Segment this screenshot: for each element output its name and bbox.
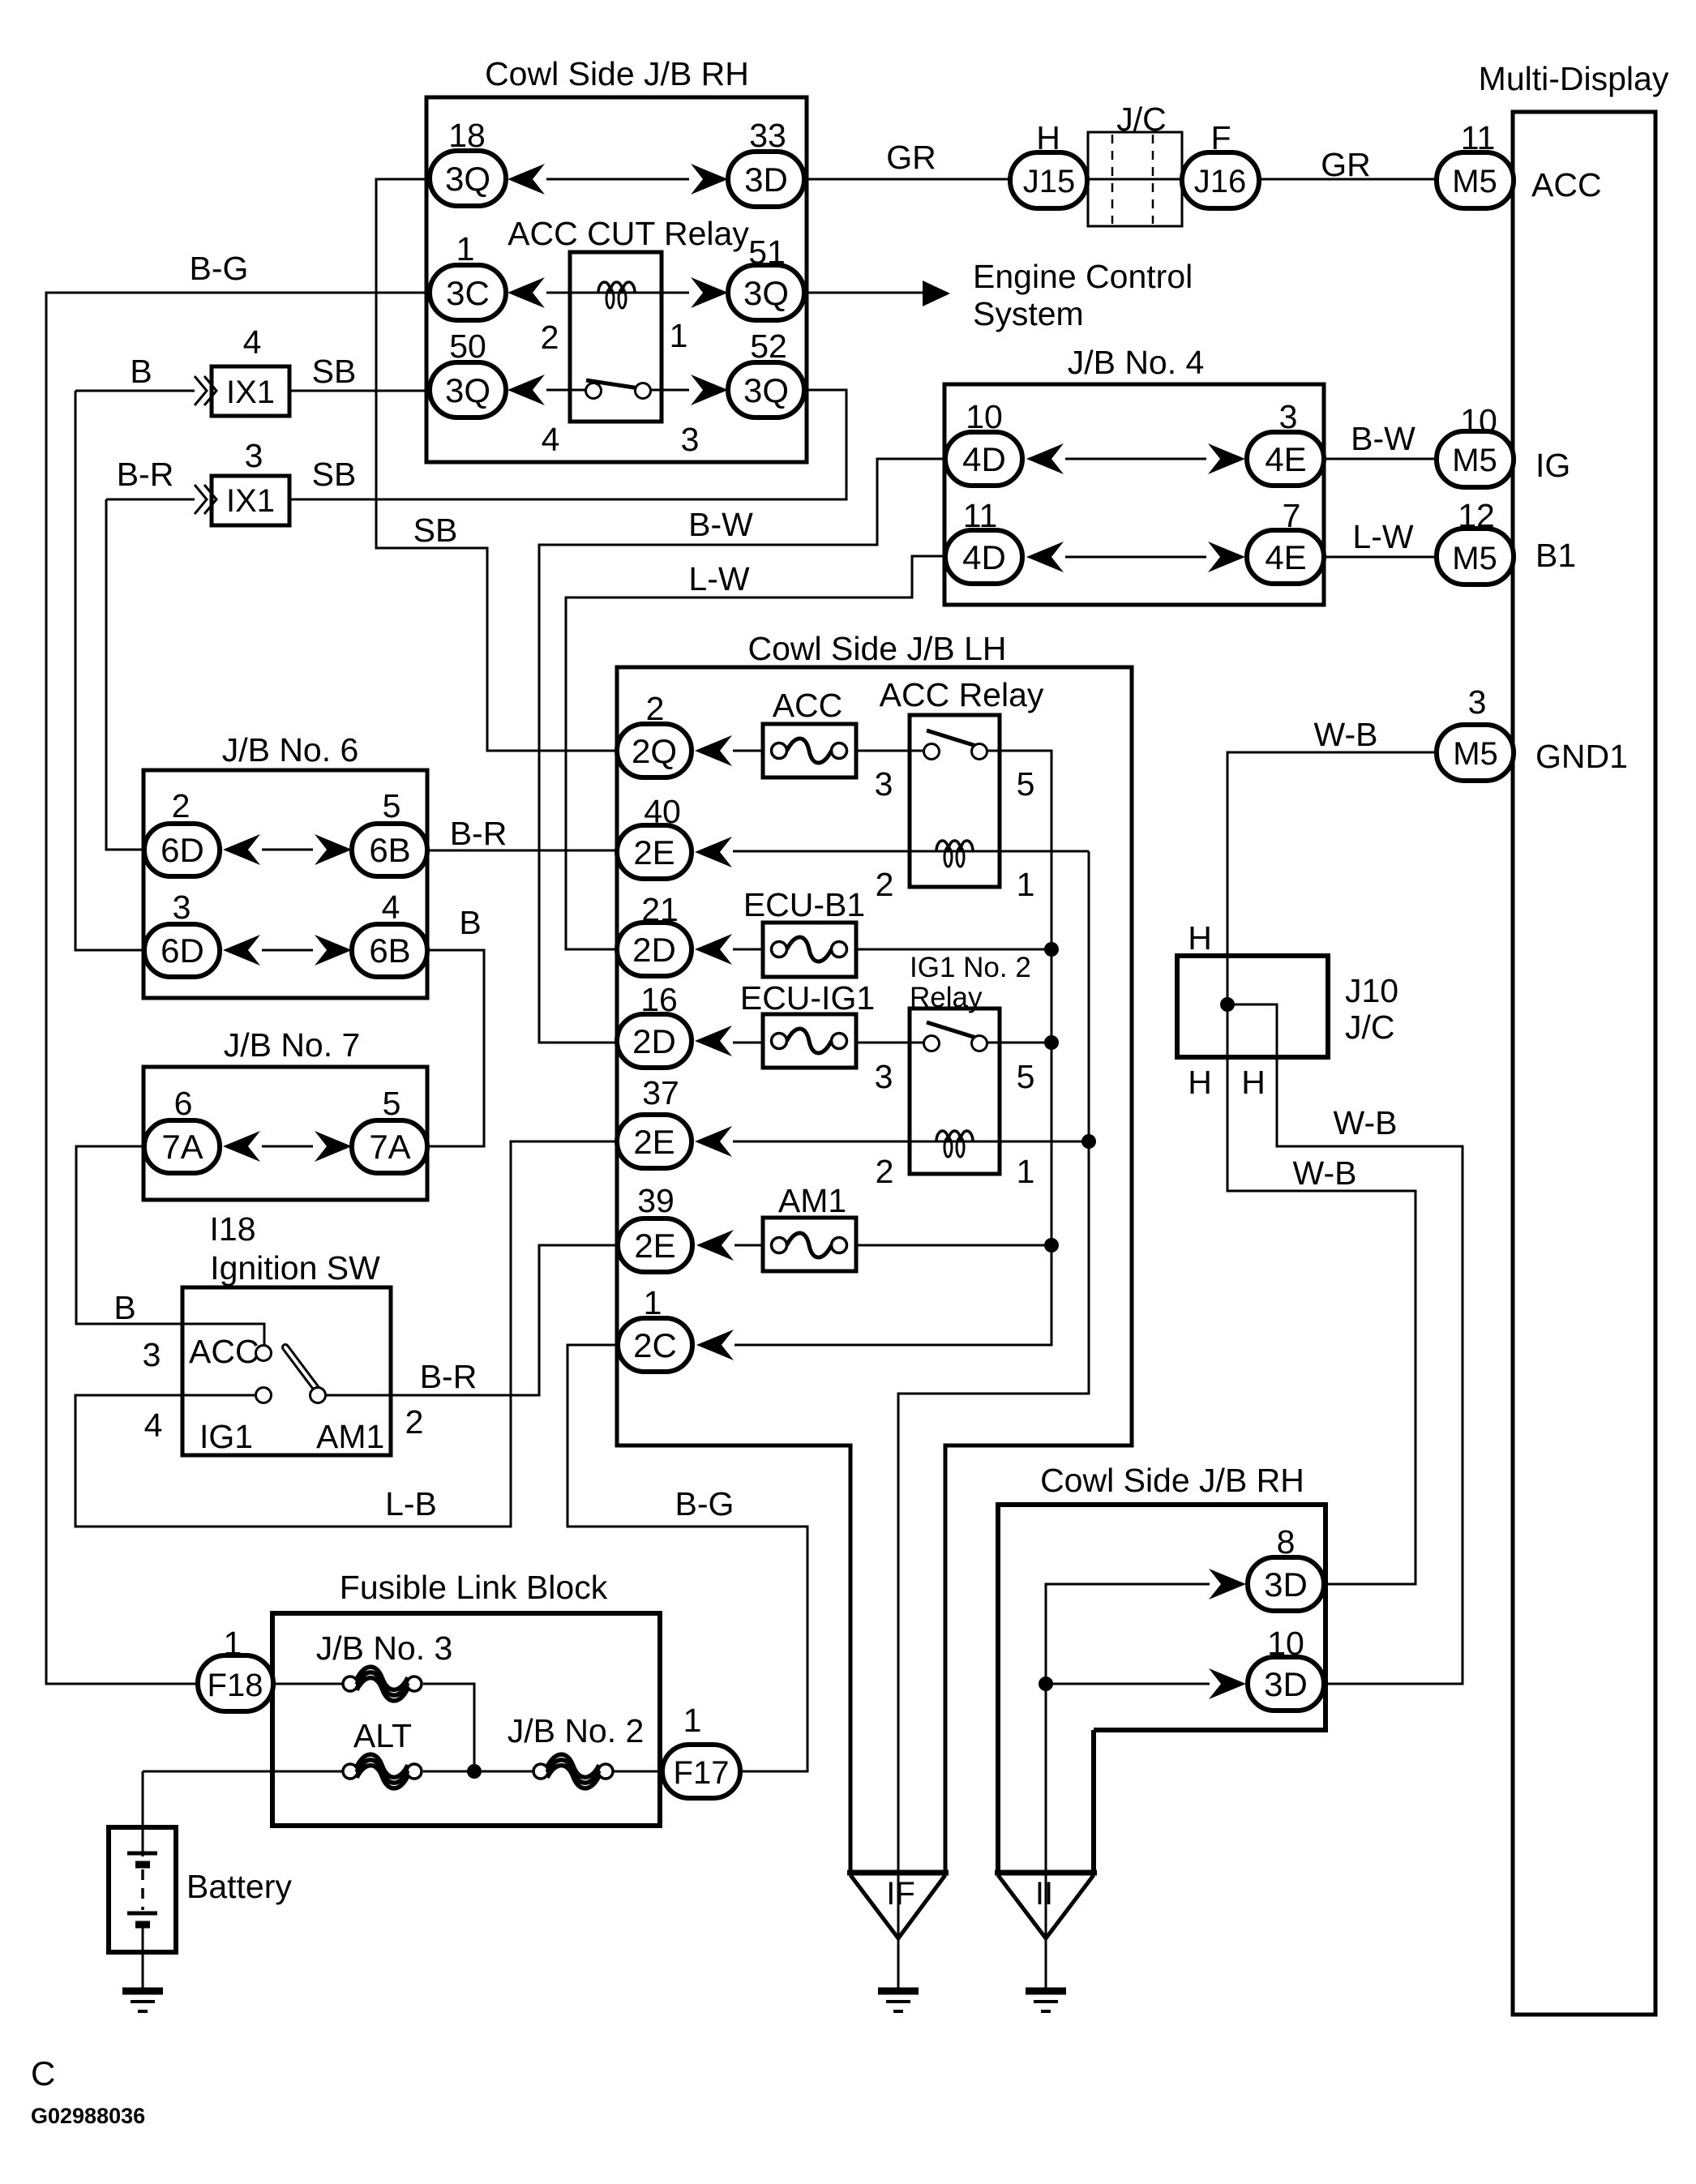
wire B-R net to 6D2 <box>106 499 146 850</box>
svg-text:6D: 6D <box>161 931 204 970</box>
svg-text:8: 8 <box>1277 1523 1296 1561</box>
connector 2Q pin 2 <box>617 724 692 777</box>
wire II funnel to ground <box>1045 1873 1047 1991</box>
svg-text:7A: 7A <box>369 1128 410 1166</box>
junction coil pins <box>1081 1134 1096 1149</box>
svg-text:IX1: IX1 <box>226 483 275 519</box>
svg-text:J/C: J/C <box>1345 1008 1395 1046</box>
svg-text:SB: SB <box>312 353 357 390</box>
svg-text:Ignition SW: Ignition SW <box>210 1249 380 1287</box>
wire W-B J10 to 3D10 <box>1227 1004 1463 1684</box>
svg-text:F17: F17 <box>674 1755 730 1791</box>
switch Ignition SW <box>182 1287 391 1455</box>
svg-text:39: 39 <box>637 1182 675 1219</box>
svg-text:2Q: 2Q <box>632 732 677 770</box>
svg-text:B: B <box>459 904 481 941</box>
wire B into IX1-4 <box>75 390 195 392</box>
svg-text:J/B No. 4: J/B No. 4 <box>1068 344 1205 381</box>
svg-text:52: 52 <box>750 328 787 365</box>
fuse AM1 <box>763 1218 856 1271</box>
wire 4D10-4E3 <box>1065 458 1206 460</box>
relay IG1 No. 2 Relay box <box>910 1008 1000 1174</box>
wire 6D3-6B4 <box>262 949 313 952</box>
svg-text:3: 3 <box>1279 398 1298 435</box>
connector J15 <box>1010 152 1087 208</box>
connector F18 pin 1 <box>198 1655 273 1711</box>
wire battery to ground <box>142 1923 144 1991</box>
svg-text:F: F <box>1210 119 1231 156</box>
wire B-R AM1 pin to 2E39 <box>325 1245 619 1395</box>
svg-text:50: 50 <box>449 328 486 365</box>
wire B-W 4E3 to M5 IG <box>1322 458 1438 460</box>
svg-text:16: 16 <box>640 981 678 1018</box>
arrow into 4E-3 <box>1208 443 1245 474</box>
wire 3D10 left <box>1046 1683 1210 1685</box>
arrow into 4D-11 <box>1026 542 1064 572</box>
wire through J/C <box>1086 178 1184 181</box>
junction block J/B No. 4 <box>944 384 1324 605</box>
svg-text:2: 2 <box>646 690 665 727</box>
connector M5 pin 12 B1 <box>1437 529 1514 585</box>
connector 3C pin 1 <box>430 265 506 320</box>
arrow into 2D-16 <box>695 1026 732 1056</box>
connector 3Q pin 18 <box>430 151 506 206</box>
junction AM1/bus <box>1044 1238 1059 1253</box>
svg-text:Fusible Link Block: Fusible Link Block <box>340 1569 608 1606</box>
svg-text:GR: GR <box>1321 146 1371 183</box>
svg-text:Engine Control: Engine Control <box>973 258 1193 295</box>
svg-text:4D: 4D <box>962 538 1006 576</box>
connector IX1 pin 4 <box>212 366 289 416</box>
wire battery to ALT link <box>143 1771 346 1773</box>
chevrons into IX1-3 <box>195 485 207 514</box>
shield funnel II <box>995 1870 1097 1876</box>
svg-text:C: C <box>31 2054 55 2092</box>
arrow into 2D-21 <box>695 934 732 965</box>
junction 3D wires <box>1039 1677 1053 1691</box>
svg-text:I18: I18 <box>210 1210 256 1248</box>
wire B-G 2C to F17 <box>567 1345 807 1771</box>
svg-text:6D: 6D <box>161 831 204 869</box>
svg-text:3Q: 3Q <box>743 274 789 312</box>
svg-text:5: 5 <box>1017 765 1035 803</box>
svg-text:10: 10 <box>966 398 1003 435</box>
wire battery feed <box>142 1771 144 1856</box>
svg-text:ALT: ALT <box>353 1717 412 1754</box>
wire IG1 relay pin5 <box>987 1042 1051 1044</box>
wire IF channel from relay coils <box>898 851 1089 1991</box>
wire to Engine Control System <box>803 292 924 294</box>
connector 3Q pin 50 <box>430 362 506 418</box>
svg-text:Cowl Side J/B RH: Cowl Side J/B RH <box>485 55 749 92</box>
arrow into 3Q-18 <box>508 164 545 195</box>
svg-text:B-G: B-G <box>675 1485 735 1522</box>
svg-text:J/B No. 3: J/B No. 3 <box>316 1629 453 1667</box>
svg-text:AM1: AM1 <box>778 1182 846 1219</box>
svg-text:B-G: B-G <box>190 250 249 287</box>
svg-text:ACC CUT Relay: ACC CUT Relay <box>508 215 749 252</box>
battery <box>109 1827 176 1952</box>
wire row 18-33 <box>546 178 689 181</box>
wire W-B M5 GND1 via J10 to 3D8 <box>1227 752 1438 1584</box>
svg-text:J/B No. 7: J/B No. 7 <box>224 1026 361 1064</box>
arrow into 3D-33 <box>691 164 728 195</box>
junction ALT/JB3 <box>467 1764 482 1779</box>
wire B net to 6D3 <box>75 391 146 950</box>
arrow into 2Q-2 <box>695 735 732 766</box>
svg-text:B-R: B-R <box>450 815 508 852</box>
wire SB IX1-4 to 3Q50 <box>289 390 430 392</box>
wire F18 to J/B No.3 link <box>199 1683 346 1685</box>
svg-text:37: 37 <box>642 1074 679 1111</box>
svg-text:4: 4 <box>144 1407 163 1444</box>
arrow into 3D-10 <box>1209 1668 1246 1699</box>
junction block Cowl Side J/B LH <box>617 667 1132 1873</box>
svg-text:11: 11 <box>963 497 998 534</box>
wire 6D2-6B5 <box>262 849 313 851</box>
svg-text:SB: SB <box>413 512 458 549</box>
wire GR 3D33 to J15 <box>803 178 1013 181</box>
wire 7A6-7A5 <box>262 1146 313 1148</box>
svg-text:6B: 6B <box>369 831 410 869</box>
svg-text:J16: J16 <box>1194 164 1247 199</box>
svg-text:2: 2 <box>541 319 559 356</box>
svg-text:3Q: 3Q <box>445 371 490 409</box>
coil ACC Relay <box>910 850 1000 853</box>
svg-text:2D: 2D <box>632 931 676 969</box>
wire B-R into IX1-3 <box>106 499 195 501</box>
switch contact ACC CUT Relay <box>586 380 645 389</box>
svg-text:1: 1 <box>1017 866 1035 903</box>
arrow into 6D-3 <box>223 935 260 966</box>
wire B 6B4 to 7A5 <box>427 950 484 1146</box>
svg-text:B-R: B-R <box>420 1358 478 1395</box>
svg-text:18: 18 <box>448 117 486 154</box>
svg-text:3: 3 <box>875 765 893 803</box>
connector J16 <box>1182 152 1259 208</box>
shield funnel IF <box>847 1870 949 1876</box>
svg-text:3D: 3D <box>1264 1565 1308 1604</box>
wire ACC relay pin5 bus to 2C <box>735 751 1051 1345</box>
svg-text:4D: 4D <box>962 440 1006 478</box>
coil IG1 No.2 Relay <box>910 1141 1000 1143</box>
fuse ECU-IG1 <box>763 1014 856 1068</box>
svg-text:51: 51 <box>748 233 786 271</box>
connector 2E pin 40 <box>617 825 692 879</box>
svg-text:Cowl Side J/B LH: Cowl Side J/B LH <box>747 630 1006 667</box>
svg-text:3: 3 <box>245 437 263 474</box>
svg-text:3: 3 <box>681 421 700 458</box>
svg-text:2: 2 <box>172 787 191 824</box>
arrow into 2E-40 <box>695 837 732 867</box>
arrow into 3Q-51 <box>691 277 728 308</box>
svg-text:J15: J15 <box>1023 164 1076 199</box>
wire IG1 relay coil pin1 <box>1000 1141 1089 1143</box>
connector 3Q pin 52 <box>728 362 804 418</box>
svg-text:7: 7 <box>1283 497 1301 534</box>
junction inside J10 <box>1220 997 1235 1012</box>
wire 3D8 left to II funnel <box>1046 1584 1210 1873</box>
svg-text:2C: 2C <box>633 1326 677 1364</box>
svg-text:11: 11 <box>1461 119 1496 156</box>
fusible link J/B No. 2 <box>533 1754 613 1788</box>
svg-text:3: 3 <box>173 889 191 926</box>
svg-text:J/B No. 6: J/B No. 6 <box>222 731 359 769</box>
svg-text:GND1: GND1 <box>1535 738 1628 775</box>
svg-text:7A: 7A <box>161 1128 203 1166</box>
wire B 7A6 to ignition ACC <box>76 1146 264 1347</box>
svg-text:6: 6 <box>174 1085 193 1122</box>
arrow into 3Q-52 <box>691 375 728 405</box>
relay ACC CUT Relay box <box>570 252 662 422</box>
svg-text:B-R: B-R <box>117 456 174 493</box>
svg-text:M5: M5 <box>1453 736 1498 772</box>
connector 3D pin 33 <box>728 152 804 207</box>
svg-text:L-B: L-B <box>385 1485 437 1522</box>
svg-text:3C: 3C <box>446 274 490 312</box>
connector 3Q pin 51 <box>728 265 804 320</box>
connector 3D pin 10 <box>1248 1657 1324 1711</box>
wire SB IX1-3 to 3Q52 <box>289 390 846 499</box>
svg-text:4: 4 <box>542 421 560 458</box>
svg-text:B-W: B-W <box>688 506 753 543</box>
svg-text:2E: 2E <box>633 1123 675 1161</box>
svg-text:Cowl Side J/B RH: Cowl Side J/B RH <box>1040 1462 1304 1499</box>
wire coil row 3C-3Q51 <box>546 292 689 294</box>
arrow into 4D-10 <box>1026 443 1064 474</box>
svg-text:AM1: AM1 <box>316 1418 384 1455</box>
svg-text:2E: 2E <box>634 1227 675 1265</box>
svg-text:L-W: L-W <box>688 560 749 597</box>
svg-text:J/B No. 2: J/B No. 2 <box>508 1712 645 1749</box>
svg-text:1: 1 <box>683 1702 702 1739</box>
svg-text:2E: 2E <box>633 833 675 871</box>
arrow into 4E-7 <box>1208 542 1245 572</box>
connector 6B pin 4 <box>352 924 427 977</box>
connector 2E pin 39 <box>618 1218 692 1272</box>
svg-text:B1: B1 <box>1535 537 1576 574</box>
junction connector J10 J/C <box>1177 956 1328 1057</box>
switch contact ACC Relay <box>927 730 979 747</box>
ground IF <box>878 1991 919 2011</box>
junction block J/B No. 7 <box>143 1067 427 1200</box>
svg-text:W-B: W-B <box>1293 1154 1357 1192</box>
svg-text:4: 4 <box>382 889 400 926</box>
switch contact IG1 No.2 Relay <box>927 1022 979 1038</box>
arrow into 2E-37 <box>695 1126 732 1157</box>
connector 7A pin 5 <box>352 1120 427 1173</box>
connector 3D pin 8 <box>1248 1557 1324 1611</box>
svg-text:B: B <box>113 1289 135 1326</box>
svg-text:3: 3 <box>875 1058 893 1095</box>
svg-text:GR: GR <box>886 139 936 176</box>
svg-text:2D: 2D <box>632 1022 676 1060</box>
wire L-B IG1 pin to 2E37 <box>75 1141 619 1527</box>
svg-text:1: 1 <box>456 230 475 268</box>
arrow into 6B-4 <box>315 935 352 966</box>
svg-text:1: 1 <box>644 1284 662 1321</box>
svg-text:10: 10 <box>1267 1625 1304 1662</box>
svg-text:IF: IF <box>886 1876 915 1912</box>
wire L-W net 2D21 to 4D11 <box>566 556 948 949</box>
svg-text:ECU-IG1: ECU-IG1 <box>740 979 875 1017</box>
wire B-G net 3C to F18 <box>46 293 430 1684</box>
svg-text:IG: IG <box>1535 447 1570 484</box>
wire GR J16 to M5 ACC <box>1257 178 1438 181</box>
arrow Engine Control System <box>923 280 950 306</box>
wire switch row 50-52 <box>546 389 586 392</box>
arrow into 3D-8 <box>1209 1569 1246 1599</box>
svg-text:M5: M5 <box>1452 164 1497 199</box>
junction block Cowl Side J/B RH (bottom) <box>998 1505 1326 1873</box>
svg-text:G02988036: G02988036 <box>31 2104 145 2128</box>
svg-text:B: B <box>130 353 152 390</box>
fuse ECU-B1 <box>763 923 856 977</box>
svg-text:4E: 4E <box>1265 440 1306 478</box>
arrow into 7A-5 <box>315 1131 352 1162</box>
component Multi-Display box <box>1513 112 1655 2015</box>
svg-text:10: 10 <box>1460 402 1497 439</box>
wire B-R 6B5 to 2E40 <box>427 850 619 852</box>
connector M5 pin 11 ACC <box>1437 152 1514 208</box>
junction ECU-B1/bus <box>1044 942 1059 957</box>
svg-text:ACC: ACC <box>189 1333 259 1370</box>
svg-text:SB: SB <box>312 456 357 493</box>
svg-text:IG1: IG1 <box>199 1418 253 1455</box>
svg-text:5: 5 <box>383 1085 401 1122</box>
fusible link ALT <box>343 1754 422 1788</box>
svg-text:2: 2 <box>405 1403 424 1441</box>
svg-text:F18: F18 <box>208 1668 263 1703</box>
connector 7A pin 6 <box>144 1120 220 1173</box>
svg-text:3D: 3D <box>744 161 788 199</box>
svg-text:1: 1 <box>1017 1153 1035 1190</box>
wire ACC relay coil pin1 <box>1000 850 1089 853</box>
svg-text:Multi-Display: Multi-Display <box>1479 60 1669 97</box>
svg-text:33: 33 <box>749 117 786 154</box>
arrow into 3C-1 <box>508 277 545 308</box>
svg-text:3Q: 3Q <box>743 371 789 409</box>
connector 4D pin 10 <box>945 432 1022 486</box>
svg-text:1: 1 <box>670 317 688 354</box>
connector M5 pin 10 IG <box>1437 431 1514 487</box>
svg-text:H: H <box>1188 1064 1212 1101</box>
svg-text:3Q: 3Q <box>445 160 490 198</box>
junction block J/B No. 6 <box>143 770 427 998</box>
svg-text:IG1 No. 2: IG1 No. 2 <box>910 952 1031 983</box>
svg-text:2: 2 <box>876 866 894 903</box>
fusible link block box <box>272 1613 660 1826</box>
connector 2D pin 16 <box>617 1014 692 1068</box>
svg-text:J10: J10 <box>1345 972 1398 1009</box>
fusible link J/B No. 3 <box>343 1667 422 1701</box>
wire J/B No.2 link to F17 <box>612 1771 664 1773</box>
svg-text:5: 5 <box>1017 1058 1035 1095</box>
arrow into 2C-1 <box>696 1330 734 1360</box>
fuse ACC <box>763 724 856 777</box>
ground II <box>1026 1991 1066 2011</box>
svg-text:W-B: W-B <box>1334 1104 1398 1141</box>
svg-text:5: 5 <box>383 787 401 824</box>
svg-text:M5: M5 <box>1452 541 1497 576</box>
connector 4E pin 7 <box>1247 530 1324 584</box>
ground battery <box>122 1991 163 2011</box>
connector 2E pin 37 <box>617 1115 692 1168</box>
svg-text:L-W: L-W <box>1352 518 1413 555</box>
coil ACC CUT Relay <box>598 282 635 308</box>
svg-text:3: 3 <box>143 1336 161 1373</box>
wire J/B No.3 link to junction <box>423 1684 474 1771</box>
connector IX1 pin 3 <box>212 476 289 525</box>
svg-text:40: 40 <box>644 793 681 830</box>
svg-text:12: 12 <box>1458 497 1495 534</box>
connector 6D pin 3 <box>144 924 220 977</box>
svg-text:System: System <box>973 295 1084 332</box>
svg-text:H: H <box>1188 919 1212 957</box>
connector 2C pin 1 <box>618 1318 692 1372</box>
arrow into 7A-6 <box>223 1131 260 1162</box>
svg-text:H: H <box>1241 1064 1266 1101</box>
svg-text:21: 21 <box>641 891 679 928</box>
connector F17 pin 1 <box>662 1745 740 1798</box>
svg-text:B-W: B-W <box>1351 420 1415 457</box>
svg-text:6B: 6B <box>369 931 410 970</box>
svg-text:4E: 4E <box>1265 538 1306 576</box>
wire B-W net 2D16 to 4D10 <box>539 459 948 1043</box>
connector 2D pin 21 <box>617 923 692 976</box>
svg-text:ACC Relay: ACC Relay <box>880 676 1044 713</box>
svg-text:3: 3 <box>1468 683 1487 721</box>
arrow into 6D-2 <box>223 834 260 865</box>
junction block Cowl Side J/B RH (top) <box>426 97 807 462</box>
connector 6B pin 5 <box>352 824 427 876</box>
svg-text:M5: M5 <box>1452 443 1497 478</box>
connector 6D pin 2 <box>144 824 220 876</box>
connector M5 pin 3 GND1 <box>1437 725 1514 781</box>
svg-text:Battery: Battery <box>186 1868 292 1905</box>
svg-text:II: II <box>1035 1876 1053 1912</box>
wire 4D11-4E7 <box>1065 556 1206 559</box>
svg-text:W-B: W-B <box>1314 716 1378 753</box>
wire ALT to J/B No.2 link <box>423 1771 534 1773</box>
relay ACC Relay box <box>910 715 1000 887</box>
svg-text:1: 1 <box>224 1625 242 1662</box>
junction connector J/C box <box>1088 132 1182 226</box>
svg-text:J/C: J/C <box>1116 101 1167 138</box>
arrow into 2E-39 <box>696 1230 734 1261</box>
svg-text:4: 4 <box>243 323 262 361</box>
arrow into 6B-5 <box>315 834 352 865</box>
connector 4E pin 3 <box>1247 432 1324 486</box>
svg-text:IX1: IX1 <box>226 375 275 410</box>
svg-text:ACC: ACC <box>1531 166 1602 203</box>
wire SB net 3Q18 to 2Q <box>376 179 619 751</box>
svg-text:2: 2 <box>876 1153 894 1190</box>
svg-text:H: H <box>1036 119 1060 156</box>
svg-text:ACC: ACC <box>773 687 843 724</box>
chevrons into IX1-4 <box>195 376 207 405</box>
arrow into 3Q-50 <box>508 375 545 405</box>
wire L-W 4E7 to M5 B1 <box>1322 556 1438 559</box>
svg-text:3D: 3D <box>1264 1665 1308 1703</box>
svg-text:ECU-B1: ECU-B1 <box>743 886 865 923</box>
connector 4D pin 11 <box>945 530 1022 584</box>
ignition switch contacts <box>285 1347 317 1390</box>
junction IG1 pin5/bus <box>1044 1035 1059 1050</box>
